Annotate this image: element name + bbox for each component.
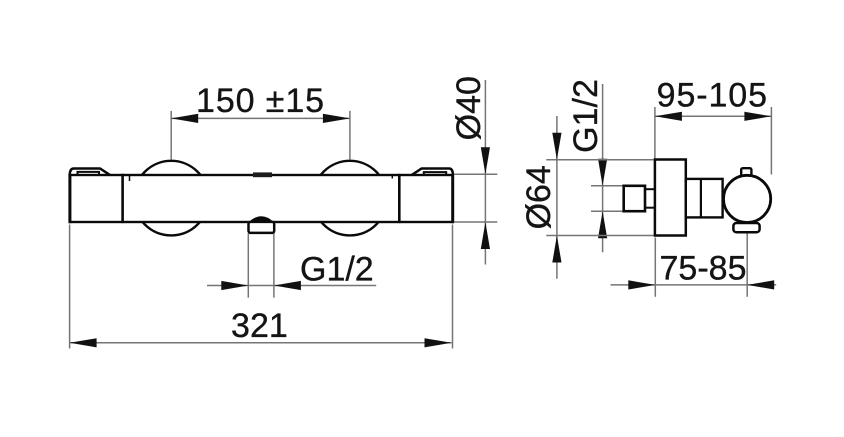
engraving mark on bar [253, 172, 272, 177]
dimension 95-105 extension line right [770, 107, 772, 175]
dimension G1/2 arrowhead right [274, 281, 301, 290]
dimension 75-85 line [611, 284, 777, 286]
dimension G1/2 arrowhead left [221, 281, 248, 290]
body tube divider [700, 179, 702, 218]
dimension G1/2 side arrowhead bottom [598, 211, 607, 238]
body tube [686, 179, 723, 218]
dimension 150±15 extension line right [349, 111, 351, 160]
right bracket bevel [411, 169, 453, 176]
bar left end edge [68, 174, 71, 223]
dimension Ø40 line [484, 80, 486, 265]
wall union thread fitting [624, 186, 645, 211]
svg-text:150 ±15: 150 ±15 [196, 82, 325, 120]
left bracket bevel [70, 169, 111, 176]
svg-text:Ø64: Ø64 [520, 165, 558, 229]
dimension G1/2 side extension line bottom [591, 210, 623, 212]
dimension 75-85 extension line right [746, 234, 748, 297]
knob top tab [741, 168, 751, 179]
dimension 95-105 arrowhead left [655, 112, 682, 121]
dimension G1/2 side line [602, 84, 604, 252]
dimension Ø64 extension line top [546, 159, 654, 161]
left bracket divider [121, 174, 124, 223]
dimension Ø64 extension line bottom [546, 235, 654, 237]
knob circle left [134, 161, 209, 236]
dimension 75-85 arrowhead left [628, 280, 655, 289]
dimension 150±15 line [171, 117, 350, 119]
right bracket divider [398, 174, 401, 223]
union neck top line [645, 188, 656, 190]
left bracket bevel inner line [78, 172, 100, 175]
svg-text:Ø40: Ø40 [450, 76, 488, 140]
right bracket bevel inner line [424, 172, 446, 175]
dimension G1/2 side extension line top [591, 185, 623, 187]
bar right end edge [451, 174, 454, 223]
dimension Ø64 arrowhead top [552, 133, 561, 160]
dimension Ø40 arrowhead bottom [481, 222, 490, 249]
mixer bar body [70, 175, 453, 222]
knob circle right [313, 161, 388, 236]
knob foot [733, 223, 759, 232]
dimension 95-105 arrowhead right [744, 112, 771, 121]
dimension Ø64 arrowhead bottom [552, 236, 561, 263]
dimension Ø64 line [556, 116, 558, 279]
dimension 75-85 arrowhead right [747, 280, 774, 289]
dimension 321 extension line left [69, 225, 71, 349]
dimension G1/2 extension line right [273, 234, 275, 298]
dimension 150±15 arrowhead right [323, 114, 350, 123]
dimension Ø40 arrowhead top [481, 147, 490, 174]
dimension Ø40 extension line top [454, 173, 497, 175]
dimension 321 line [70, 342, 452, 344]
svg-text:G1/2: G1/2 [567, 79, 605, 153]
sleeve tick right [391, 175, 393, 179]
dimension G1/2 extension line left [247, 234, 249, 298]
dimension Ø40 extension line bottom [454, 221, 497, 223]
escutcheon disc [655, 160, 686, 236]
union neck bottom line [645, 207, 656, 209]
outlet nub [249, 222, 275, 233]
dimension G1/2 line [207, 285, 376, 287]
dimension 321 extension line right [452, 225, 454, 349]
svg-text:75-85: 75-85 [660, 250, 747, 288]
dimension G1/2 side arrowhead top [598, 159, 607, 186]
dimension 321 arrowhead left [70, 338, 97, 347]
svg-text:G1/2: G1/2 [300, 250, 374, 288]
svg-text:321: 321 [231, 307, 288, 345]
svg-text:95-105: 95-105 [657, 77, 768, 115]
dimension 150±15 extension line left [170, 111, 172, 160]
outlet boss lens [249, 216, 274, 222]
knob circle side [724, 175, 771, 222]
dimension 321 arrowhead right [425, 338, 452, 347]
dimension 75-85 extension line left [654, 238, 656, 297]
dimension 95-105 line [655, 115, 772, 117]
dimension 95-105 extension line left [654, 107, 656, 159]
sleeve tick left [129, 176, 131, 182]
dimension 150±15 arrowhead left [171, 114, 198, 123]
